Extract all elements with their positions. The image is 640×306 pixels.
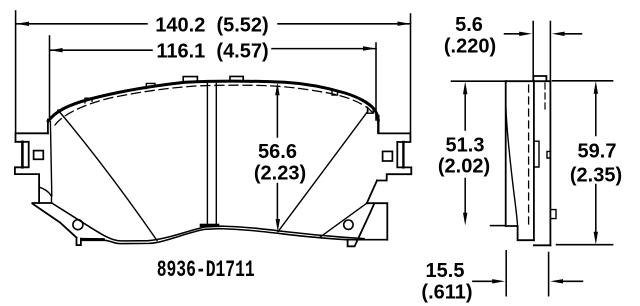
left ear top (16, 133, 48, 142)
dim 116.1 arrow left (50, 48, 63, 52)
top edge notch 1 (85, 98, 92, 103)
svg-text:5.6: 5.6 (455, 14, 483, 36)
dim 15.5 ext left (505, 251, 507, 296)
center slot left line (206, 82, 208, 224)
dim 51.3 ext top (452, 80, 505, 82)
right ear square hole (383, 151, 393, 161)
dim 140.2 arrow right (398, 22, 411, 26)
svg-text:15.5: 15.5 (426, 260, 465, 282)
side view: hidden line in friction (528, 85, 530, 226)
dim 59.7 ext top (553, 80, 613, 82)
top edge bump 2 (230, 76, 243, 81)
left ear square hole (34, 151, 44, 160)
dim 56.6 arrow top (275, 83, 279, 96)
dim 59.7 arrow bottom (594, 232, 598, 245)
side view: friction wear curve (506, 103, 518, 226)
left lower diagonal edge (32, 204, 76, 238)
dim 5.6 ext right (549, 22, 551, 80)
dim 56.6 arrow bottom (276, 219, 280, 232)
dim 116.1 ext line left (49, 36, 51, 117)
side view: clip rect (534, 141, 539, 167)
dim 116.1 line (50, 49, 376, 51)
dim 59.7 ext bottom (557, 244, 613, 246)
left ear channel lip (21, 142, 24, 168)
dim 140.2 line (16, 23, 410, 25)
top edge bump 1 (183, 77, 197, 82)
left face diagonal (58, 110, 157, 241)
dim 51.3 ext bottom (491, 225, 505, 227)
svg-text:59.7: 59.7 (578, 141, 617, 163)
plate right corner edge (377, 116, 379, 133)
left foot tab (77, 238, 81, 246)
right edge slant (367, 181, 377, 204)
right lower step (367, 203, 388, 240)
right foot tab (348, 203, 375, 246)
side view: plate right edge (549, 81, 551, 245)
dim 15.5 line right (562, 280, 583, 282)
dim 5.6 ext left (532, 22, 534, 75)
right ear channel lip (402, 142, 404, 167)
dim 140.2 arrow left (16, 22, 29, 26)
dim 140.2 ext line right (410, 14, 412, 132)
center slot right line (215, 82, 217, 224)
dim 56.6 line (276, 91, 278, 225)
svg-text:(2.23): (2.23) (254, 163, 306, 185)
dim 15.5 line left (473, 280, 493, 282)
dim 51.3 arrow top (463, 81, 467, 94)
side view: right outer bump (550, 210, 556, 219)
dim 59.7 line (595, 93, 597, 233)
svg-text:(2.02): (2.02) (438, 155, 490, 177)
side view: plate bottom (534, 244, 551, 246)
left ear channel (15, 142, 39, 203)
left mounting hole (73, 220, 83, 230)
svg-text:140.2 (5.52): 140.2 (5.52) (155, 15, 268, 37)
side view: friction left edge (505, 81, 507, 226)
svg-text:(.220): (.220) (444, 35, 496, 57)
left shoulder bulge (39, 187, 51, 203)
dim 5.6 line left (505, 33, 522, 35)
side view: top edge (506, 80, 551, 82)
plate left corner edge (47, 120, 49, 134)
dim 140.2 ext line left (15, 11, 17, 133)
top edge notch 2 (146, 83, 155, 88)
side view: top tab (533, 76, 546, 81)
dim 51.3 line (464, 93, 466, 215)
svg-text:(.611): (.611) (421, 282, 472, 304)
left shoulder step (32, 202, 51, 204)
svg-text:56.6: 56.6 (258, 141, 297, 163)
side view: friction-plate interface (533, 81, 535, 240)
dim 5.6 line right (563, 33, 582, 35)
dim 15.5 arrow left (492, 279, 505, 283)
dim 5.6 arrow left (519, 32, 532, 36)
right face diagonal (278, 111, 368, 232)
side view: right inner bump (547, 151, 550, 158)
pad top arc (friction top edge, thick) (48, 81, 378, 121)
side view: hidden line in plate (544, 83, 546, 110)
top edge notch 4 (368, 107, 374, 113)
right lower chamfer diagonal (320, 203, 367, 237)
svg-text:8936-D1711: 8936-D1711 (157, 257, 255, 283)
svg-text:51.3: 51.3 (446, 135, 485, 157)
foot band upper (81, 238, 104, 240)
dim 15.5 arrow right (550, 279, 563, 283)
friction left edge (50, 122, 51, 197)
center slot bottom bar (200, 224, 220, 227)
dim 116.1 ext line right (375, 43, 377, 120)
right ear top (379, 133, 411, 142)
side view: friction bottom step (506, 226, 534, 240)
bottom edge upper line (friction bottom) (52, 203, 364, 241)
pad top dashed hidden line (55, 85, 374, 125)
svg-text:(2.35): (2.35) (570, 164, 622, 186)
dim 116.1 arrow right (363, 46, 376, 50)
right mounting hole (344, 220, 353, 229)
svg-text:116.1 (4.57): 116.1 (4.57) (156, 41, 268, 63)
right ear channel (377, 142, 411, 181)
bottom edge lower line (plate bottom) (81, 229, 387, 244)
dim 5.6 arrow right (552, 32, 565, 36)
dim 15.5 ext right (548, 253, 550, 296)
dim 51.3 arrow bottom (463, 213, 467, 226)
dim 59.7 arrow top (594, 81, 598, 94)
top edge notch 3 (332, 89, 338, 95)
